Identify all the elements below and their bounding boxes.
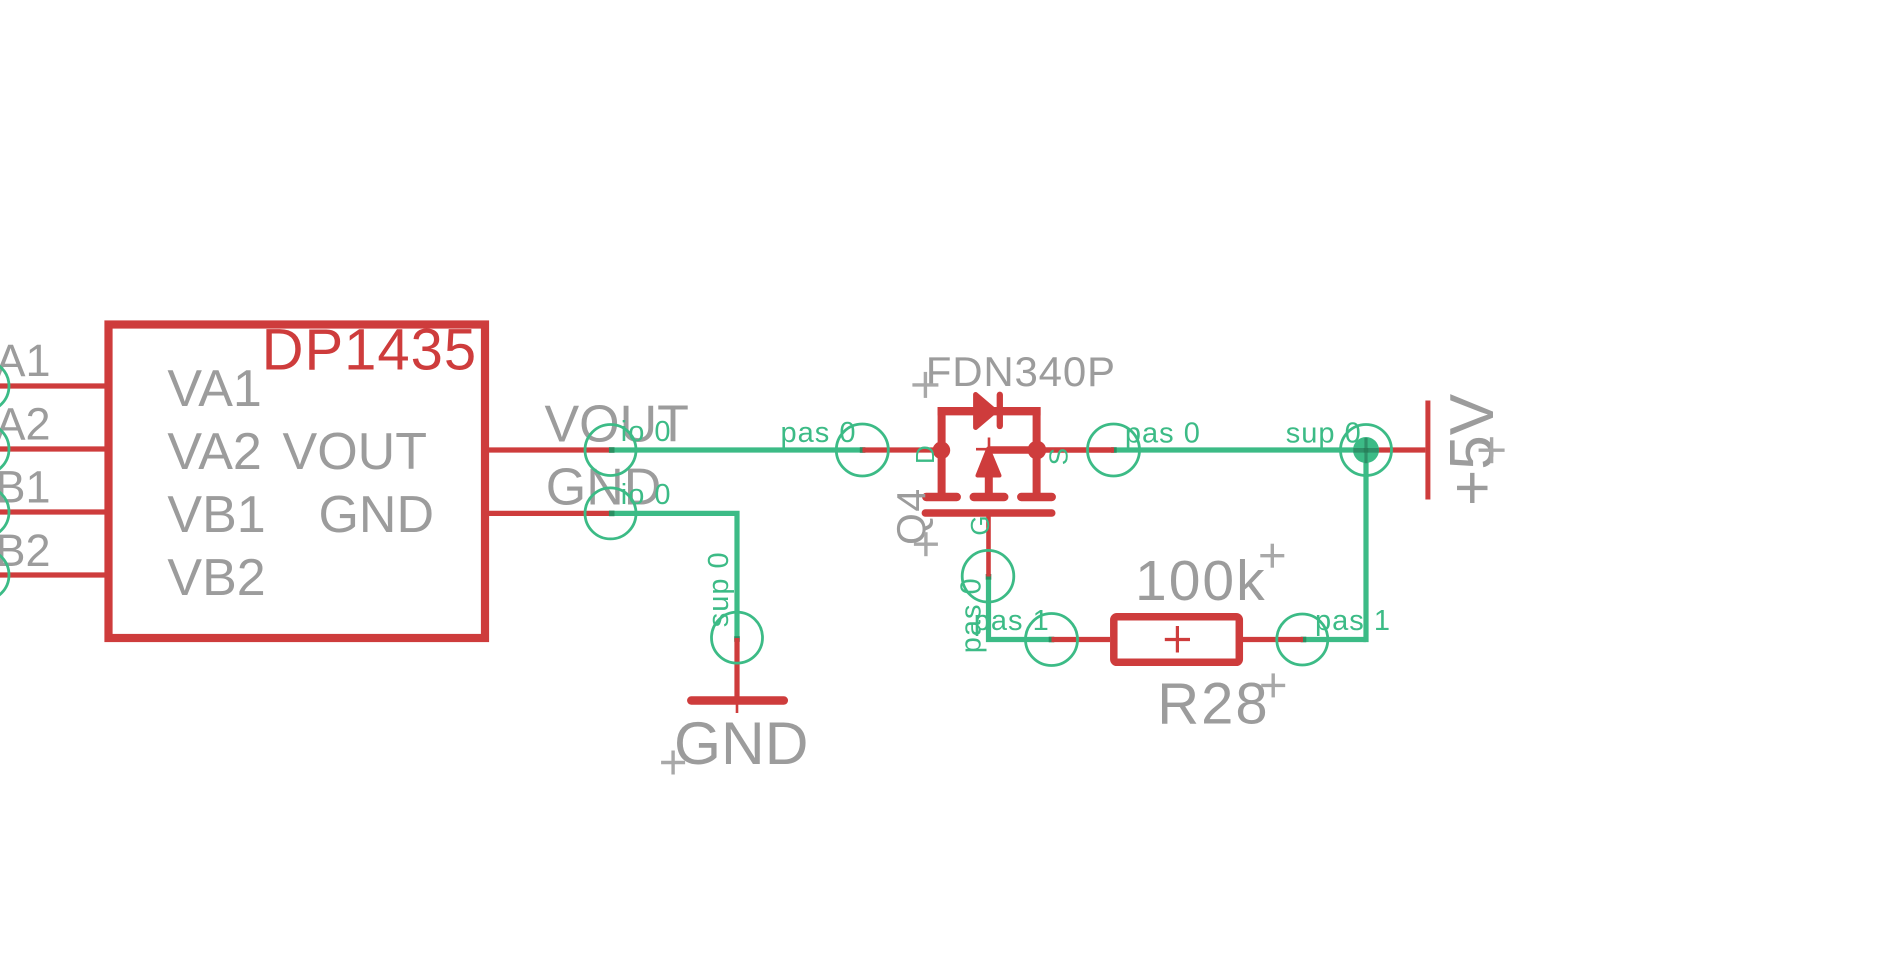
pin wire B1 [0, 509, 110, 514]
wire net VOUT horizontal [611, 447, 863, 452]
svg-text:VA1: VA1 [167, 360, 261, 418]
svg-text:pas 1: pas 1 [1315, 605, 1391, 637]
wire net source to +5V junction [1114, 447, 1366, 452]
anchor cross GND symbol [661, 761, 685, 764]
pin circle R28 pin2 [1277, 614, 1328, 665]
pin circle gate [962, 550, 1014, 602]
svg-text:D: D [910, 445, 940, 464]
pin circle VOUT [585, 425, 636, 476]
gate pin [986, 513, 991, 577]
anchor cross Q4 [914, 543, 938, 546]
transistor Q4 FDN340P body [863, 395, 1115, 577]
R28 pin 1 [1052, 637, 1111, 642]
svg-text:pas 0: pas 0 [1125, 418, 1201, 450]
channel bar middle [974, 493, 1004, 502]
pin circle drain [836, 424, 888, 476]
junction square R28 pin1 [1049, 637, 1055, 643]
pin wire B2 [0, 572, 110, 577]
svg-text:VB1: VB1 [167, 486, 265, 544]
pin wire A2 [0, 446, 110, 451]
svg-text:pas 0: pas 0 [781, 417, 857, 449]
ring at +5V junction [1341, 425, 1392, 476]
pin GND of IC [489, 511, 611, 516]
wire net gate to R28 and up to junction [989, 579, 1052, 640]
anchor cross 100k [1260, 554, 1284, 557]
junction square GND pin [609, 511, 615, 517]
junction square gnd supply pin [734, 636, 740, 642]
junction square drain pin [860, 447, 866, 453]
pin circle A2 [0, 424, 9, 475]
svg-text:FDN340P: FDN340P [926, 348, 1116, 395]
substrate arrow [978, 449, 1000, 476]
pin circle source [1088, 424, 1140, 476]
channel bar right [1021, 493, 1051, 502]
svg-text:sup 0: sup 0 [1286, 418, 1362, 450]
junction dot source [1028, 441, 1047, 460]
svg-text:pas 1: pas 1 [974, 605, 1050, 637]
pin circle R28 pin1 [1026, 614, 1078, 666]
svg-text:GND: GND [318, 486, 434, 544]
pin circle B1 [0, 487, 9, 538]
svg-text:sup 0: sup 0 [703, 551, 735, 627]
svg-text:100k: 100k [1135, 549, 1267, 613]
junction square source pin [1111, 447, 1117, 453]
left vertical drain branch [938, 407, 946, 497]
pin VOUT of IC [489, 447, 611, 452]
pin circle gnd supply [712, 612, 763, 663]
gate bar [925, 509, 1052, 516]
middle vertical below arrow [985, 476, 993, 496]
resistor R28 body [1114, 617, 1240, 663]
junction square gate pin [986, 574, 992, 580]
drain pin [863, 447, 942, 452]
source pin [1037, 447, 1114, 453]
cathode bar of body diode [997, 395, 1003, 426]
IC U box DP1435 [109, 325, 486, 639]
junction dot drain [933, 442, 951, 460]
pin circle GND [585, 488, 636, 539]
svg-text:VA2: VA2 [167, 423, 261, 481]
ground symbol GND [734, 638, 739, 701]
junction square R28 pin2 [1301, 637, 1307, 643]
anchor cross FDN340P [912, 383, 938, 386]
anchor cross +5V [1479, 449, 1505, 452]
top line [938, 407, 1041, 415]
svg-text:S: S [1043, 448, 1073, 465]
junction square VOUT pin [609, 447, 615, 453]
svg-text:R28: R28 [1157, 672, 1269, 737]
svg-text:io 0: io 0 [621, 416, 672, 448]
svg-text:VOUT: VOUT [283, 423, 427, 481]
anchor cross R28 [1261, 684, 1285, 687]
svg-text:G: G [965, 515, 995, 535]
pin circle A1 [0, 361, 9, 412]
pin circle B2 [0, 550, 9, 601]
+5V supply symbol [1366, 447, 1425, 452]
junction dot at +5V node [1353, 437, 1379, 463]
svg-text:VB2: VB2 [167, 549, 265, 607]
svg-text:io 0: io 0 [621, 479, 672, 511]
R28 pin 2 [1243, 637, 1303, 642]
origin cross of transistor (thin red) [988, 438, 991, 454]
svg-text:DP1435: DP1435 [262, 318, 478, 383]
channel bar left [926, 493, 956, 502]
right vertical source branch [1033, 407, 1041, 497]
pin wire A1 [0, 383, 110, 388]
wire net GND pin to ground symbol [611, 513, 737, 640]
source internal line [989, 446, 1037, 453]
svg-text:GND: GND [674, 709, 808, 777]
R28 origin cross (thin red) [1165, 638, 1190, 641]
body diode triangle [976, 395, 995, 428]
